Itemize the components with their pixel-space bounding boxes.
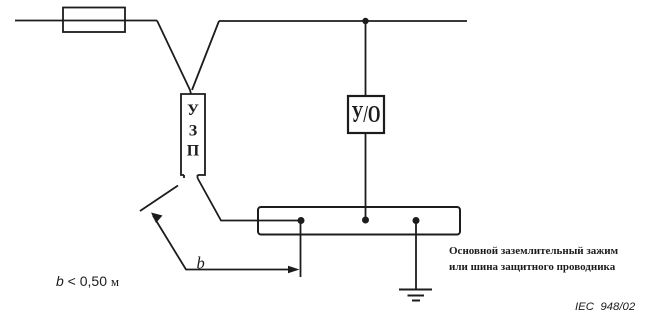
wire: vertical from junction down to U/O box (365, 21, 367, 96)
extension line below bus node (300, 221, 302, 277)
dimension leader line b (153, 216, 297, 270)
arrowhead up-left on dimension leader (151, 213, 163, 224)
svg-text:У/О: У/О (352, 102, 381, 128)
relay U/O (У/О) box (348, 96, 384, 133)
label: IEC 948/02 (575, 301, 635, 313)
node: junction dot on top wire (362, 18, 368, 24)
svg-text:П: П (187, 143, 200, 160)
wire: top-right horizontal (219, 20, 467, 22)
fuse F (rectangle on top-left wire) (63, 8, 125, 33)
dimension extension line at UZP terminal (140, 186, 178, 212)
label: b < 0,50 м (56, 273, 119, 290)
node: bus bar dot middle (U/O connection) (362, 217, 369, 224)
wire: left diagonal down to UZP top (157, 21, 191, 95)
bus bar: main earthing terminal (258, 207, 460, 235)
wire: bus bar down to ground (415, 222, 417, 289)
wire: UZP bottom to bus bar (198, 178, 302, 221)
label: bus bar description text (449, 243, 629, 275)
node: bus bar dot left (UZP connection) (298, 217, 305, 224)
wire: U/O box down to bus bar (365, 133, 367, 220)
surge arrester U3P (УЗП) box (181, 94, 205, 178)
svg-text:У: У (187, 102, 199, 119)
wire: right diagonal from UZP top (192, 21, 219, 90)
svg-text:b: b (197, 254, 205, 273)
wire: top-left horizontal through fuse (15, 20, 157, 22)
node: bus bar dot right (ground connection) (413, 217, 420, 224)
ground symbol (399, 290, 432, 301)
svg-text:З: З (189, 123, 198, 140)
arrowhead right on dimension leader (288, 266, 300, 274)
